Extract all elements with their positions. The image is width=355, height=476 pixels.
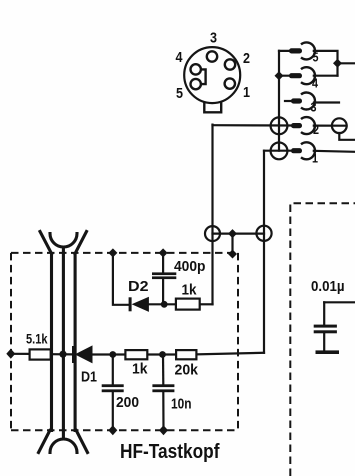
svg-text:1: 1 (243, 85, 250, 101)
svg-text:HF-Tastkopf: HF-Tastkopf (120, 440, 220, 463)
svg-text:2: 2 (313, 122, 319, 137)
svg-text:400p: 400p (174, 258, 206, 275)
svg-text:3: 3 (210, 31, 217, 47)
svg-text:0.01µ: 0.01µ (311, 278, 345, 295)
svg-text:1: 1 (312, 151, 318, 166)
svg-text:5: 5 (313, 50, 319, 65)
svg-text:20k: 20k (175, 362, 199, 379)
svg-text:5: 5 (176, 86, 183, 102)
svg-text:D2: D2 (128, 278, 149, 295)
svg-text:5.1k: 5.1k (26, 331, 48, 347)
svg-text:4: 4 (312, 75, 319, 90)
svg-text:1k: 1k (182, 282, 198, 299)
svg-text:3: 3 (311, 99, 317, 114)
svg-text:4: 4 (176, 50, 183, 66)
svg-text:D1: D1 (81, 369, 97, 386)
svg-text:2: 2 (243, 51, 250, 67)
svg-text:1k: 1k (132, 361, 148, 378)
svg-text:10n: 10n (171, 396, 192, 413)
svg-text:200: 200 (116, 394, 139, 411)
